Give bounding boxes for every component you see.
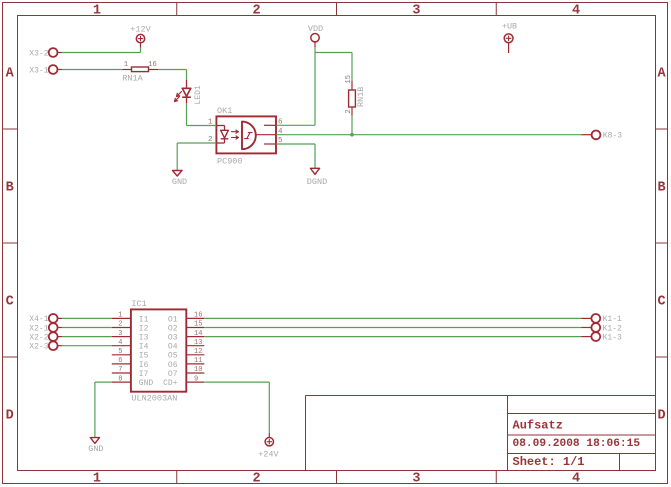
svg-text:I5: I5 xyxy=(139,352,149,361)
svg-text:D: D xyxy=(6,409,14,424)
svg-text:5: 5 xyxy=(118,348,122,356)
svg-text:CD+: CD+ xyxy=(163,379,178,388)
svg-text:1: 1 xyxy=(93,4,101,19)
svg-text:O3: O3 xyxy=(168,334,178,343)
svg-text:3: 3 xyxy=(412,4,420,19)
svg-text:K1-2: K1-2 xyxy=(603,324,622,333)
svg-text:1: 1 xyxy=(124,61,128,69)
svg-text:C: C xyxy=(657,295,665,310)
svg-text:3: 3 xyxy=(118,330,122,338)
svg-text:GND: GND xyxy=(88,444,103,454)
svg-text:I4: I4 xyxy=(139,343,149,352)
svg-text:Aufsatz: Aufsatz xyxy=(513,419,563,433)
svg-text:1: 1 xyxy=(93,472,101,487)
svg-text:+24V: +24V xyxy=(258,450,279,460)
svg-text:DGND: DGND xyxy=(307,177,327,187)
svg-text:PC900: PC900 xyxy=(217,157,243,167)
svg-text:10: 10 xyxy=(194,366,202,374)
svg-text:K1-3: K1-3 xyxy=(603,333,622,342)
svg-text:ULN2003AN: ULN2003AN xyxy=(131,394,177,404)
svg-text:14: 14 xyxy=(194,330,202,338)
svg-text:O4: O4 xyxy=(168,343,178,352)
svg-text:GND: GND xyxy=(172,177,187,187)
svg-text:C: C xyxy=(6,295,14,310)
svg-text:4: 4 xyxy=(118,339,122,347)
svg-text:16: 16 xyxy=(148,61,156,69)
svg-text:O5: O5 xyxy=(168,352,178,361)
svg-text:3: 3 xyxy=(412,472,420,487)
svg-text:+12V: +12V xyxy=(130,25,151,35)
svg-text:A: A xyxy=(657,67,666,82)
svg-text:15: 15 xyxy=(194,321,202,329)
svg-text:D: D xyxy=(657,409,665,424)
svg-text:2: 2 xyxy=(118,321,122,329)
svg-text:I7: I7 xyxy=(139,370,149,379)
svg-text:IC1: IC1 xyxy=(131,299,146,309)
svg-text:+UB: +UB xyxy=(502,21,517,31)
svg-text:O6: O6 xyxy=(168,361,178,370)
svg-text:I6: I6 xyxy=(139,361,149,370)
svg-text:OK1: OK1 xyxy=(217,106,232,116)
svg-text:X4-1: X4-1 xyxy=(29,315,48,324)
svg-text:4: 4 xyxy=(572,4,580,19)
svg-text:X2-1: X2-1 xyxy=(29,324,48,333)
svg-text:11: 11 xyxy=(194,357,202,365)
svg-text:O1: O1 xyxy=(168,315,178,324)
svg-text:O2: O2 xyxy=(168,324,178,333)
svg-text:A: A xyxy=(6,67,15,82)
svg-text:X3-2: X3-2 xyxy=(29,49,48,58)
svg-text:I2: I2 xyxy=(139,324,149,333)
svg-text:K1-1: K1-1 xyxy=(603,315,622,324)
svg-text:08.09.2008 18:06:15: 08.09.2008 18:06:15 xyxy=(513,438,641,450)
svg-text:X3-1: X3-1 xyxy=(29,66,48,75)
svg-text:2: 2 xyxy=(253,4,261,19)
svg-text:15: 15 xyxy=(345,75,353,83)
svg-text:K8-3: K8-3 xyxy=(603,132,622,141)
svg-text:1: 1 xyxy=(118,312,122,320)
svg-text:RN1A: RN1A xyxy=(122,74,143,84)
svg-text:B: B xyxy=(657,181,665,196)
svg-text:2: 2 xyxy=(208,136,213,144)
svg-text:Sheet: 1/1: Sheet: 1/1 xyxy=(513,455,585,469)
svg-text:I1: I1 xyxy=(139,315,149,324)
svg-text:1: 1 xyxy=(208,119,213,127)
svg-text:LED1: LED1 xyxy=(194,85,203,104)
svg-text:7: 7 xyxy=(118,366,122,374)
svg-text:12: 12 xyxy=(194,348,202,356)
svg-text:4: 4 xyxy=(572,472,580,487)
svg-text:X2-3: X2-3 xyxy=(29,343,48,352)
svg-text:9: 9 xyxy=(194,375,198,383)
svg-text:GND: GND xyxy=(139,379,154,388)
svg-text:I3: I3 xyxy=(139,334,149,343)
svg-text:X2-2: X2-2 xyxy=(29,333,48,342)
svg-text:6: 6 xyxy=(118,357,122,365)
svg-text:RN1B: RN1B xyxy=(356,87,366,107)
svg-text:B: B xyxy=(6,181,14,196)
svg-text:8: 8 xyxy=(118,375,122,383)
svg-text:VDD: VDD xyxy=(308,24,323,34)
svg-text:13: 13 xyxy=(194,339,202,347)
svg-text:O7: O7 xyxy=(168,370,178,379)
svg-text:2: 2 xyxy=(345,109,353,113)
svg-text:2: 2 xyxy=(253,472,261,487)
svg-text:16: 16 xyxy=(194,312,202,320)
